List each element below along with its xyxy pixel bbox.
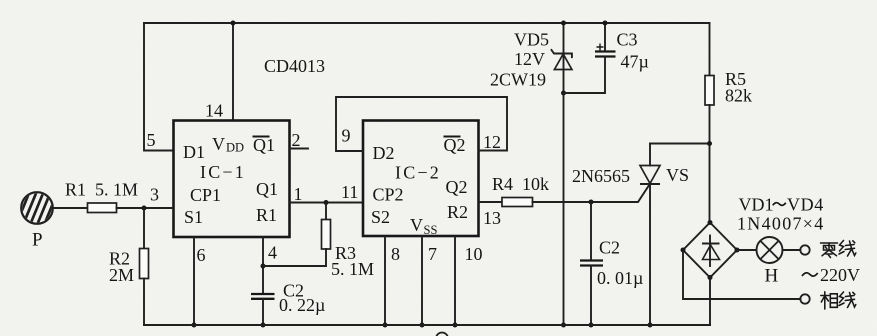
svg-text:S2: S2 xyxy=(371,207,390,227)
label ~220V xyxy=(802,265,860,285)
svg-text:1N4007×4: 1N4007×4 xyxy=(737,214,825,234)
capacitor C2 0.22u xyxy=(251,281,325,326)
svg-text:VD5: VD5 xyxy=(514,30,549,50)
wire bridge right to lamp xyxy=(737,249,757,251)
svg-text:2: 2 xyxy=(292,130,301,150)
wire P to R1 xyxy=(53,207,88,209)
wire top VDD rail xyxy=(144,22,710,24)
wire Q1 to CP2 xyxy=(290,202,364,204)
wire bridge bottom to ground xyxy=(709,278,711,326)
svg-text:R1 5. 1M: R1 5. 1M xyxy=(65,180,138,200)
node pin4/R3 xyxy=(261,264,266,269)
svg-text:R2: R2 xyxy=(447,202,468,222)
node 3 xyxy=(142,206,147,211)
svg-text:0. 01µ: 0. 01µ xyxy=(597,268,643,288)
svg-text:5: 5 xyxy=(147,130,156,150)
resistor R1 xyxy=(88,203,117,213)
resistor R5 xyxy=(705,23,752,223)
resistor R3 xyxy=(263,203,374,280)
svg-text:11: 11 xyxy=(341,182,358,202)
svg-text:Q2: Q2 xyxy=(446,177,468,197)
wire pin10 xyxy=(454,237,456,326)
wire pin8 xyxy=(384,237,386,326)
wire pin6 to ground rail xyxy=(193,237,195,325)
thyristor VS xyxy=(640,144,660,326)
svg-text:CP2: CP2 xyxy=(373,185,404,205)
svg-text:3: 3 xyxy=(150,185,159,205)
svg-text:R1: R1 xyxy=(256,205,277,225)
svg-text:14: 14 xyxy=(205,101,223,121)
svg-text:Q1: Q1 xyxy=(253,135,275,155)
zener VD5 line xyxy=(563,23,565,325)
wire pin13 to R4 xyxy=(479,201,503,203)
svg-text:5. 1M: 5. 1M xyxy=(331,259,374,279)
svg-text:Q1: Q1 xyxy=(256,179,278,199)
touch plate P xyxy=(21,192,53,250)
terminal neutral xyxy=(800,245,809,254)
svg-text:S1: S1 xyxy=(184,207,203,227)
zener VD5 symbol xyxy=(552,50,572,70)
svg-text:C2: C2 xyxy=(599,238,620,258)
ground bottom rail xyxy=(144,324,710,326)
bridge rectifier VD1-VD4 xyxy=(681,220,740,280)
svg-text:D2: D2 xyxy=(373,143,395,163)
svg-text:P: P xyxy=(32,230,43,251)
svg-text:DD: DD xyxy=(226,141,244,155)
svg-text:220V: 220V xyxy=(820,265,860,285)
svg-text:V: V xyxy=(410,215,423,235)
wire R1 to CP1 xyxy=(117,207,174,209)
svg-text:SS: SS xyxy=(424,223,438,237)
svg-text:CP1: CP1 xyxy=(190,185,221,205)
svg-text:CD4013: CD4013 xyxy=(264,56,325,76)
label Q2-bar with overline xyxy=(444,135,466,155)
svg-text:82k: 82k xyxy=(725,86,752,106)
wire pin5 loop from rail to D1 xyxy=(144,23,174,151)
svg-text:V: V xyxy=(212,134,225,154)
label VD1~VD4 xyxy=(739,195,824,215)
label 相线 (live) xyxy=(821,292,838,309)
wire pin4 down xyxy=(262,237,264,294)
wire lamp to neutral terminal xyxy=(783,249,801,251)
svg-text:1: 1 xyxy=(294,184,303,204)
capacitor C2 0.01u xyxy=(580,202,643,325)
svg-text:47µ: 47µ xyxy=(621,52,649,72)
svg-text:R4 10k: R4 10k xyxy=(492,174,549,194)
label VSS xyxy=(410,215,437,237)
wire R4 to gate xyxy=(533,185,650,203)
svg-text:8: 8 xyxy=(391,244,400,264)
svg-text:13: 13 xyxy=(483,208,501,228)
svg-text:D1: D1 xyxy=(183,142,205,162)
wire bridge left to live terminal xyxy=(683,250,801,299)
IC U2 (IC-2) box xyxy=(363,121,479,237)
IC U1 (IC-1) box xyxy=(174,121,290,238)
label VDD xyxy=(212,134,244,155)
svg-text:IC−2: IC−2 xyxy=(395,163,441,183)
svg-text:2N6565: 2N6565 xyxy=(572,166,630,186)
label Q1-bar with overline xyxy=(253,135,276,155)
label 零线 (neutral) xyxy=(821,243,838,258)
node C2b top xyxy=(589,200,594,205)
svg-text:10: 10 xyxy=(465,244,483,264)
resistor R2 xyxy=(109,208,149,325)
terminal live xyxy=(800,294,809,303)
svg-text:2M: 2M xyxy=(109,265,134,285)
svg-text:C3: C3 xyxy=(617,30,638,50)
wire pin14 from rail to IC-1 top xyxy=(232,23,234,121)
capacitor C3 xyxy=(564,23,649,93)
svg-text:12V: 12V xyxy=(514,49,545,69)
svg-text:VD4: VD4 xyxy=(787,195,824,215)
lamp H xyxy=(757,237,783,287)
svg-text:0. 22µ: 0. 22µ xyxy=(279,295,325,315)
wire pin9 loop and Q2bar feedback xyxy=(336,97,507,151)
svg-text:6: 6 xyxy=(197,245,206,265)
svg-text:IC−1: IC−1 xyxy=(200,162,246,182)
wire VS anode to R5 node xyxy=(650,143,710,145)
svg-text:7: 7 xyxy=(428,244,437,264)
svg-text:12: 12 xyxy=(483,132,501,152)
svg-text:4: 4 xyxy=(268,243,277,263)
wire pin2 stub xyxy=(290,148,309,150)
svg-text:VS: VS xyxy=(666,165,689,185)
resistor R4 xyxy=(502,198,533,207)
node junction rail/pin14 xyxy=(231,21,236,26)
svg-text:H: H xyxy=(765,266,779,287)
svg-text:Q2: Q2 xyxy=(444,135,466,155)
wire pin7 xyxy=(421,237,423,326)
svg-text:9: 9 xyxy=(342,126,351,146)
node R3 top xyxy=(324,200,329,205)
figure mark partial circle xyxy=(436,333,448,336)
svg-text:2CW19: 2CW19 xyxy=(490,70,546,90)
svg-text:VD1: VD1 xyxy=(739,195,774,215)
